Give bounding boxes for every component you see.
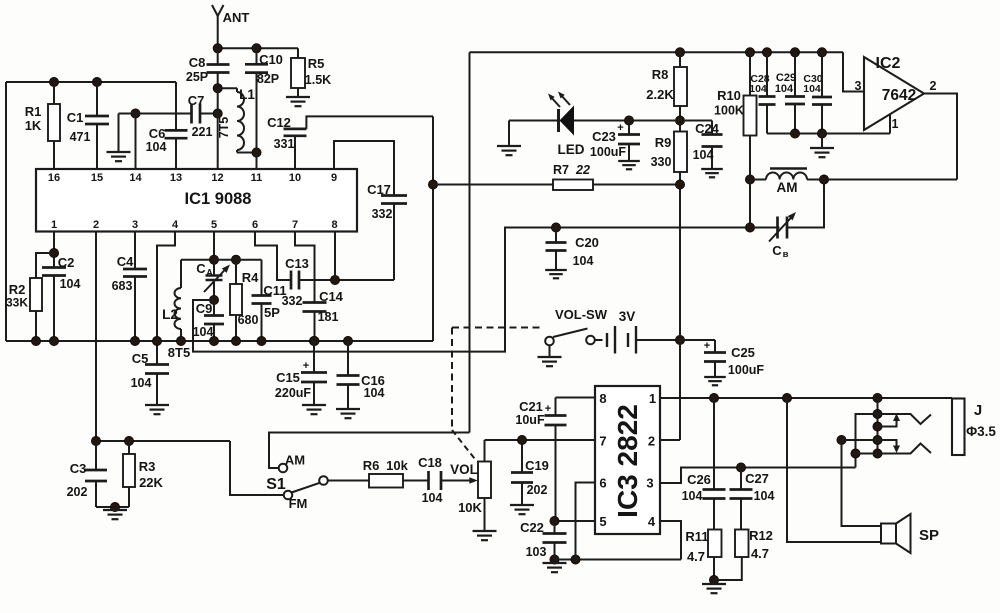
svg-text:104: 104 — [803, 83, 821, 95]
svg-text:+: + — [545, 403, 551, 415]
svg-text:330: 330 — [651, 155, 672, 169]
svg-text:1: 1 — [649, 391, 656, 406]
svg-text:11: 11 — [251, 172, 263, 184]
svg-text:C7: C7 — [188, 93, 205, 108]
svg-text:100K: 100K — [714, 104, 744, 118]
svg-text:22K: 22K — [139, 475, 163, 490]
svg-text:C6: C6 — [149, 126, 166, 141]
svg-text:181: 181 — [318, 310, 339, 324]
svg-text:221: 221 — [192, 125, 213, 139]
svg-text:C14: C14 — [319, 289, 344, 304]
svg-text:R1: R1 — [25, 104, 42, 119]
svg-text:R3: R3 — [139, 459, 156, 474]
svg-text:104: 104 — [754, 489, 775, 503]
svg-text:7T5: 7T5 — [217, 117, 231, 139]
svg-text:A: A — [206, 268, 213, 278]
svg-text:103: 103 — [526, 545, 547, 559]
svg-text:104: 104 — [422, 491, 443, 505]
svg-text:6: 6 — [599, 476, 606, 491]
svg-text:C23: C23 — [592, 129, 616, 144]
svg-text:R12: R12 — [749, 528, 773, 543]
svg-text:SP: SP — [919, 527, 939, 544]
svg-text:C20: C20 — [575, 235, 599, 250]
svg-text:100uF: 100uF — [728, 363, 764, 377]
svg-text:104: 104 — [60, 277, 81, 291]
svg-text:4: 4 — [648, 514, 656, 529]
svg-text:22: 22 — [575, 163, 590, 177]
svg-text:VOL: VOL — [450, 462, 478, 477]
svg-text:10uF: 10uF — [515, 413, 545, 427]
svg-text:VOL-SW: VOL-SW — [555, 307, 608, 322]
svg-text:104: 104 — [775, 83, 794, 95]
svg-text:C: C — [196, 261, 206, 276]
svg-text:C: C — [772, 243, 782, 258]
svg-text:5P: 5P — [264, 305, 280, 320]
svg-text:L2: L2 — [162, 307, 178, 322]
svg-text:R8: R8 — [652, 67, 669, 82]
svg-text:1: 1 — [51, 219, 57, 231]
svg-text:LED: LED — [558, 142, 585, 157]
svg-text:1K: 1K — [25, 118, 42, 133]
svg-text:C18: C18 — [418, 455, 442, 470]
svg-text:C10: C10 — [259, 52, 283, 67]
svg-text:C12: C12 — [267, 115, 291, 130]
svg-text:683: 683 — [112, 279, 133, 293]
svg-text:332: 332 — [372, 207, 393, 221]
svg-text:4.7: 4.7 — [751, 546, 769, 561]
svg-text:202: 202 — [527, 483, 548, 497]
svg-text:4.7: 4.7 — [687, 549, 705, 564]
svg-text:L1: L1 — [239, 87, 255, 102]
svg-text:IC3 2822: IC3 2822 — [612, 404, 643, 518]
svg-text:8T5: 8T5 — [168, 345, 190, 360]
svg-text:202: 202 — [67, 485, 88, 499]
svg-text:104: 104 — [749, 83, 767, 95]
svg-text:2: 2 — [648, 434, 655, 449]
svg-text:1.5K: 1.5K — [305, 73, 331, 87]
svg-text:12: 12 — [211, 172, 223, 184]
svg-text:+: + — [704, 340, 710, 352]
svg-text:7642: 7642 — [882, 87, 916, 104]
svg-text:R9: R9 — [655, 135, 672, 150]
svg-text:4: 4 — [172, 219, 179, 231]
svg-text:220uF: 220uF — [275, 386, 311, 400]
svg-text:7: 7 — [599, 434, 606, 449]
svg-text:9: 9 — [331, 172, 337, 184]
svg-text:C1: C1 — [67, 110, 84, 125]
svg-text:IC2: IC2 — [876, 55, 901, 72]
svg-text:в: в — [783, 249, 789, 260]
svg-text:3: 3 — [646, 476, 653, 491]
svg-text:R10: R10 — [717, 88, 741, 103]
svg-text:680: 680 — [238, 313, 259, 327]
svg-text:C3: C3 — [70, 461, 87, 476]
svg-text:1: 1 — [892, 117, 899, 131]
svg-text:6: 6 — [252, 219, 258, 231]
svg-text:AM: AM — [777, 180, 798, 195]
svg-text:FM: FM — [289, 496, 308, 511]
svg-text:C22: C22 — [520, 520, 544, 535]
svg-text:C26: C26 — [687, 472, 711, 487]
svg-text:R6: R6 — [363, 458, 380, 473]
svg-text:C5: C5 — [132, 351, 149, 366]
svg-text:AM: AM — [285, 453, 305, 468]
svg-text:R7: R7 — [553, 163, 569, 177]
svg-text:104: 104 — [146, 140, 167, 154]
svg-text:C15: C15 — [276, 370, 300, 385]
svg-text:13: 13 — [170, 172, 182, 184]
svg-text:C9: C9 — [196, 301, 213, 316]
svg-text:8: 8 — [599, 391, 606, 406]
svg-text:104: 104 — [573, 254, 594, 268]
svg-text:5: 5 — [599, 514, 606, 529]
svg-text:R5: R5 — [308, 56, 325, 71]
svg-text:10: 10 — [289, 172, 301, 184]
svg-text:332: 332 — [282, 294, 303, 308]
svg-text:Φ3.5: Φ3.5 — [966, 424, 996, 439]
svg-text:104: 104 — [693, 148, 714, 162]
svg-text:J: J — [974, 402, 982, 419]
svg-text:ANT: ANT — [223, 10, 250, 25]
svg-text:2.2K: 2.2K — [646, 87, 674, 102]
svg-text:C25: C25 — [731, 345, 755, 360]
svg-text:7: 7 — [292, 219, 298, 231]
svg-text:C4: C4 — [117, 254, 134, 269]
svg-text:82P: 82P — [257, 72, 279, 86]
svg-text:C2: C2 — [58, 255, 75, 270]
svg-text:C13: C13 — [285, 256, 309, 271]
svg-text:+: + — [617, 122, 623, 134]
svg-text:331: 331 — [274, 137, 295, 151]
svg-text:3: 3 — [132, 219, 138, 231]
svg-text:104: 104 — [682, 489, 703, 503]
svg-text:S1: S1 — [266, 476, 286, 493]
svg-text:2: 2 — [93, 219, 99, 231]
svg-text:471: 471 — [70, 130, 91, 144]
svg-text:100uF: 100uF — [590, 145, 626, 159]
svg-text:104: 104 — [193, 325, 214, 339]
svg-text:10k: 10k — [386, 458, 408, 473]
svg-text:25P: 25P — [186, 70, 208, 84]
svg-text:14: 14 — [129, 172, 142, 184]
svg-text:16: 16 — [48, 172, 60, 184]
svg-text:C8: C8 — [189, 55, 206, 70]
svg-text:15: 15 — [91, 172, 103, 184]
svg-text:R11: R11 — [685, 529, 708, 544]
svg-text:3V: 3V — [619, 309, 636, 324]
svg-text:2: 2 — [930, 79, 937, 93]
svg-text:C27: C27 — [745, 471, 769, 486]
svg-text:10K: 10K — [458, 500, 482, 515]
svg-text:5: 5 — [211, 219, 217, 231]
svg-text:C21: C21 — [519, 399, 543, 414]
svg-text:C19: C19 — [525, 458, 549, 473]
svg-text:IC1 9088: IC1 9088 — [185, 190, 252, 208]
svg-text:C24: C24 — [695, 121, 720, 136]
svg-text:8: 8 — [331, 219, 337, 231]
svg-text:104: 104 — [364, 386, 385, 400]
svg-text:104: 104 — [131, 376, 152, 390]
svg-text:+: + — [303, 360, 309, 372]
svg-text:R4: R4 — [242, 270, 259, 285]
svg-text:C17: C17 — [367, 182, 391, 197]
svg-text:33K: 33K — [6, 296, 28, 310]
